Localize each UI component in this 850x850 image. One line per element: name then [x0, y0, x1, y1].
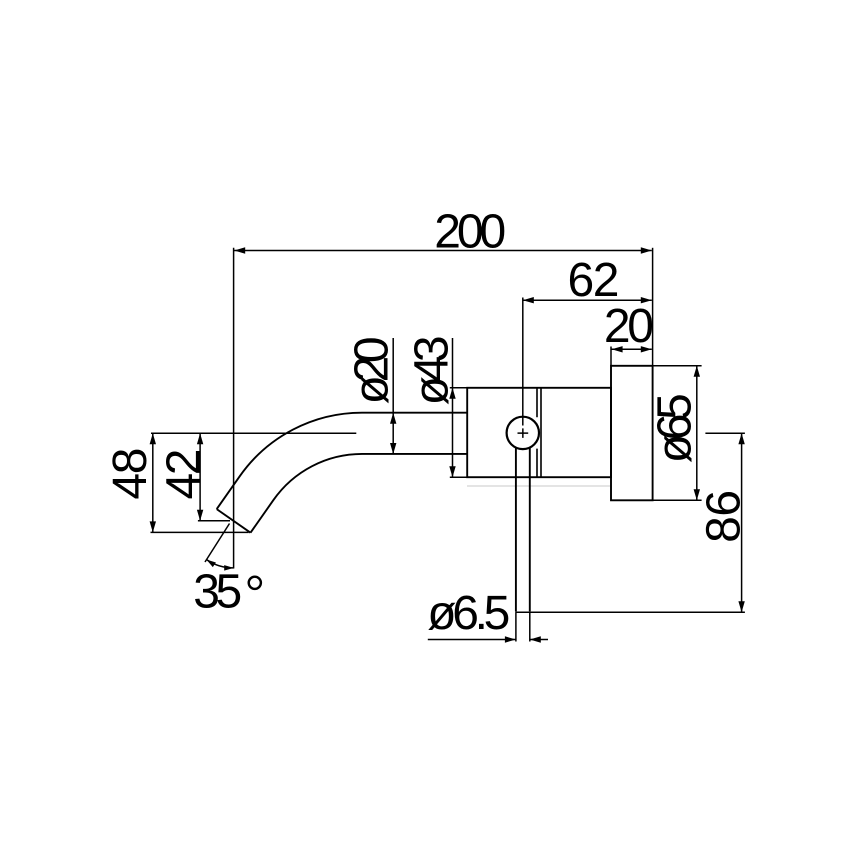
svg-text:42: 42: [157, 449, 210, 500]
svg-text:ø20: ø20: [346, 336, 399, 404]
svg-text:20: 20: [604, 300, 654, 353]
svg-text:35: 35: [193, 566, 242, 619]
svg-text:48: 48: [104, 448, 157, 500]
svg-text:ø65: ø65: [649, 393, 702, 463]
svg-text:86: 86: [698, 490, 751, 543]
svg-text:200: 200: [434, 206, 506, 259]
svg-text:ø6.5: ø6.5: [427, 587, 510, 640]
svg-text:ø43: ø43: [406, 335, 459, 405]
